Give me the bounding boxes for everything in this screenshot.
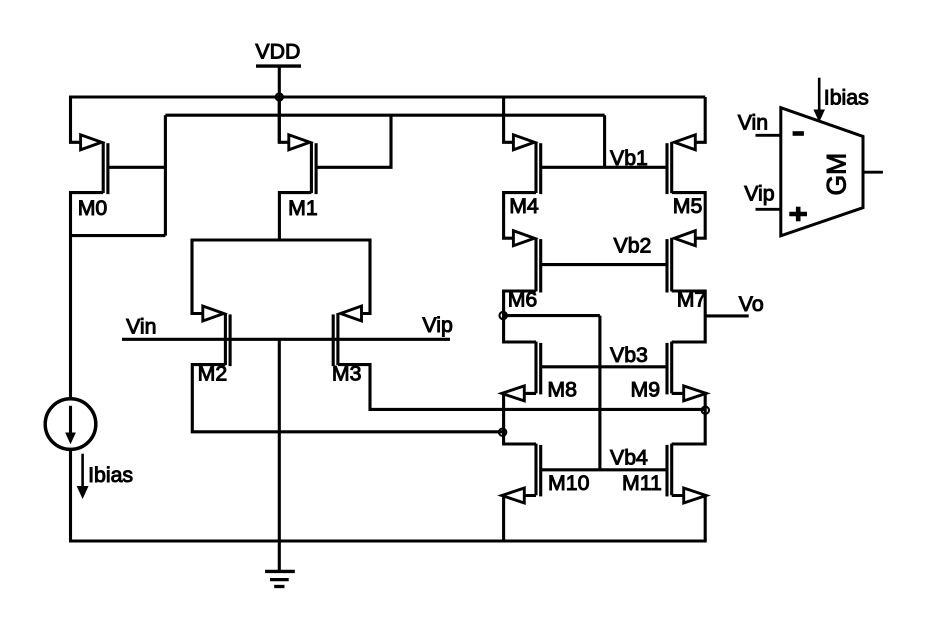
svg-text:Vb4: Vb4 <box>610 446 648 470</box>
transistor M3 (PMOS) <box>332 306 362 385</box>
wire M3 source <box>359 239 370 314</box>
GM output wire <box>863 171 883 174</box>
svg-text:M1: M1 <box>288 196 318 220</box>
GM plus sign <box>789 212 807 217</box>
GM Vip input <box>744 182 781 210</box>
wire tail rail <box>192 238 370 241</box>
transistor M10 (NMOS) <box>502 444 590 503</box>
svg-text:Vb1: Vb1 <box>610 146 648 170</box>
wire M5 source drop <box>693 97 706 142</box>
current source I1 circle <box>45 399 96 450</box>
VDD supply symbol <box>255 40 301 67</box>
wire ground rail <box>69 539 707 542</box>
svg-text:M6: M6 <box>508 288 538 312</box>
node M6-M8 junction <box>500 312 507 319</box>
wire M0 source from rail <box>71 97 83 142</box>
svg-text:Vo: Vo <box>739 292 764 316</box>
svg-text:M10: M10 <box>548 471 590 495</box>
wire M11 source to rail <box>672 496 706 542</box>
svg-text:VDD: VDD <box>255 40 300 64</box>
wire M1 source stem <box>279 97 290 142</box>
svg-text:M4: M4 <box>509 194 539 218</box>
svg-text:M5: M5 <box>673 194 703 218</box>
svg-text:M8: M8 <box>547 378 577 402</box>
wire M4 source drop <box>504 97 515 142</box>
transistor M9 (NMOS) <box>631 342 707 402</box>
svg-text:M7: M7 <box>677 288 707 312</box>
GM minus sign <box>793 131 804 136</box>
transistor M4 (PMOS) <box>509 135 541 218</box>
wire M0 drain down to current source <box>71 193 104 400</box>
wire M4 drain to M6 source <box>504 193 536 239</box>
label Ibias with arrow <box>77 454 133 498</box>
node B junction <box>499 429 506 436</box>
svg-text:M11: M11 <box>622 471 662 495</box>
wire Vb2 gate line <box>541 263 667 266</box>
wire M5 drain to M7 source <box>672 193 706 239</box>
wire top VDD rail <box>69 95 705 98</box>
transistor M0 (PMOS) <box>78 135 108 220</box>
transistor M11 (NMOS) <box>622 444 706 503</box>
node A junction <box>702 407 709 414</box>
svg-text:M9: M9 <box>631 378 661 402</box>
transistor M8 (NMOS) <box>502 342 577 402</box>
wire center vertical to ground <box>278 339 281 570</box>
wire Vb3 gate line <box>541 365 667 368</box>
wire M9 source to node A <box>672 393 706 444</box>
wire Vin-Vip gate line <box>122 338 450 341</box>
svg-text:M3: M3 <box>332 361 362 385</box>
svg-text:M0: M0 <box>78 196 108 220</box>
svg-text:Vip: Vip <box>744 182 774 206</box>
transistor M2 (PMOS) <box>198 306 231 385</box>
wire M7 drain / M9 drain <box>672 291 706 342</box>
wire M0 gate <box>108 166 165 169</box>
wire Vb1 gate line <box>541 166 667 169</box>
wire VDD stem <box>278 66 281 142</box>
wire current source to ground rail <box>69 449 72 541</box>
wire Vb4 gate line <box>541 468 667 471</box>
GM Ibias input arrow <box>814 78 869 121</box>
svg-text:GM: GM <box>822 153 852 196</box>
wire M2 source <box>192 239 204 314</box>
wire M2 drain to node B <box>192 365 503 432</box>
node Vo output <box>705 292 763 316</box>
wire node to Vb4 feed horizontal <box>504 314 600 317</box>
op-amp GM trapezoid <box>781 108 863 236</box>
svg-text:M2: M2 <box>198 361 228 385</box>
svg-text:Vin: Vin <box>738 111 768 135</box>
svg-text:Vb3: Vb3 <box>610 343 648 367</box>
wire second bias rail <box>165 114 604 117</box>
transistor M6 (PMOS) <box>508 231 541 312</box>
transistor M5 (PMOS) <box>667 135 702 218</box>
GM Vin input <box>738 111 781 136</box>
wire M0 gate-drain tie horizontal <box>69 234 165 237</box>
wire Vb4 feed vertical <box>598 316 601 470</box>
wire M1 gate to bias rail <box>316 115 391 167</box>
transistor M1 (PMOS) <box>288 135 318 220</box>
wire M10 source to rail <box>504 496 536 542</box>
wire M1 drain to tail rail <box>279 193 311 240</box>
wire M6 drain / M8 drain <box>504 291 536 342</box>
ground symbol <box>265 571 295 586</box>
wire M8 source to node B <box>504 393 536 444</box>
transistor M7 (PMOS) <box>667 231 706 312</box>
wire Vb1 to bias rail <box>603 115 606 167</box>
svg-text:Vin: Vin <box>126 315 156 339</box>
wire M0 gate-drain tie vertical <box>164 115 167 235</box>
current source I1 arrow <box>69 406 72 434</box>
svg-text:Ibias: Ibias <box>824 86 869 110</box>
svg-text:Vb2: Vb2 <box>614 234 652 258</box>
wire M3 drain to node A <box>338 365 705 410</box>
svg-text:Ibias: Ibias <box>88 463 133 487</box>
node VDD junction <box>276 93 283 100</box>
svg-text:Vip: Vip <box>422 313 452 337</box>
